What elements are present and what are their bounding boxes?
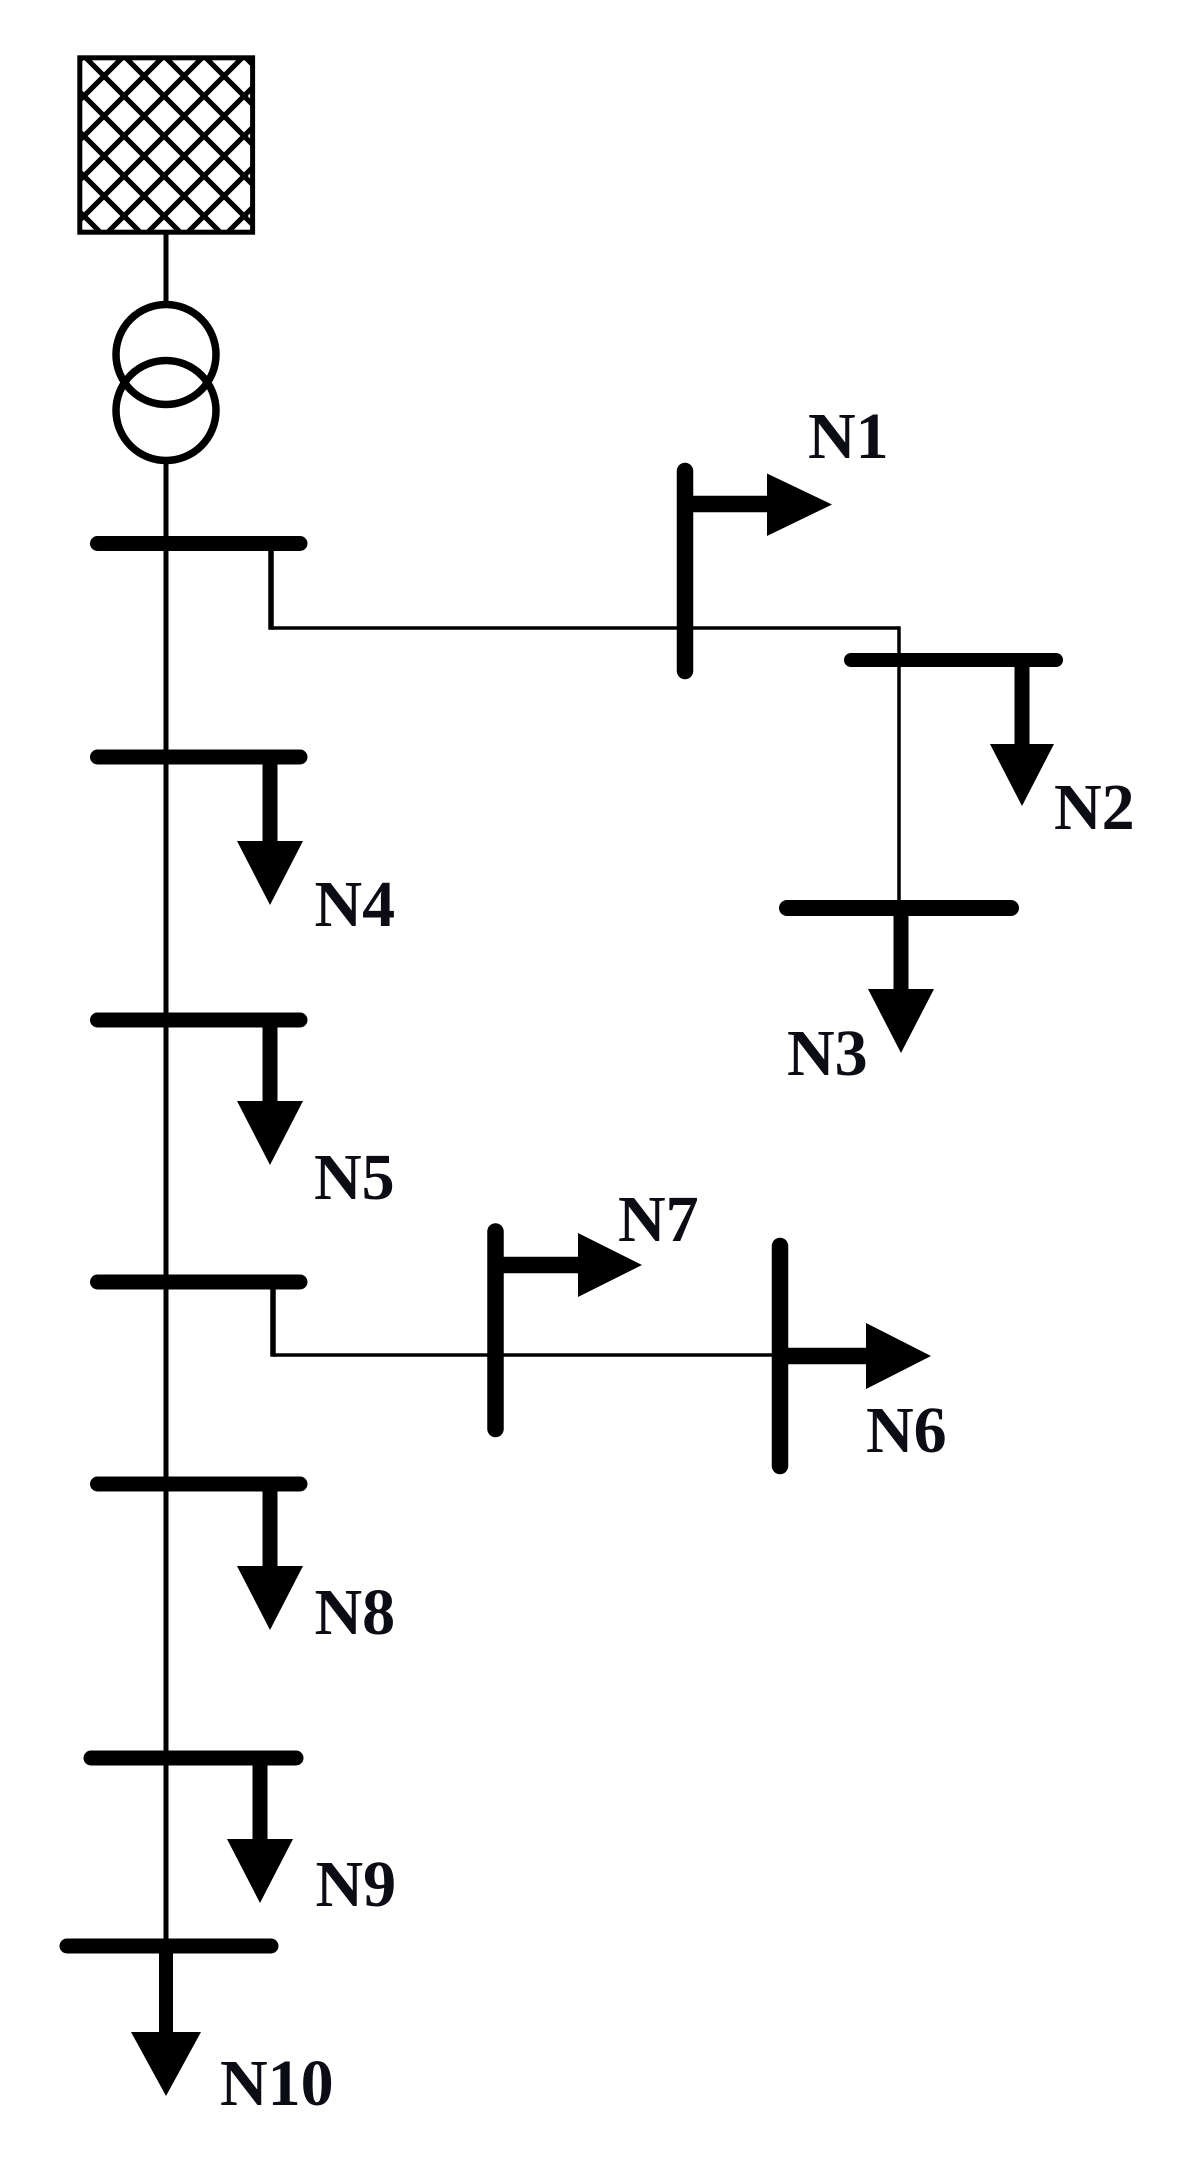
svg-text:N5: N5 <box>314 1141 395 1214</box>
busbar B4 <box>98 1275 301 1290</box>
svg-text:N10: N10 <box>220 2047 334 2120</box>
svg-text:N8: N8 <box>315 1576 396 1649</box>
load arrow N8 <box>263 1489 278 1570</box>
wire down to N2/N3 <box>897 626 901 908</box>
load arrow N2 <box>1015 665 1030 748</box>
busbar node N6 <box>772 1246 789 1466</box>
wire lateral to N1 <box>271 626 899 630</box>
busbar B7 <box>67 1939 271 1954</box>
load arrow N1 <box>685 496 770 513</box>
busbar B5 <box>98 1477 301 1492</box>
svg-text:N3: N3 <box>787 1017 868 1090</box>
wire lateral to N7/N6 <box>273 1353 780 1357</box>
svg-text:N7: N7 <box>618 1183 699 1256</box>
wire grid to transformer <box>164 232 169 306</box>
busbar B3 <box>98 1013 301 1028</box>
svg-text:N1: N1 <box>808 400 889 473</box>
load arrow N6 <box>780 1348 869 1365</box>
load arrow N7 <box>496 1257 582 1274</box>
wire drop from busbar B4 <box>270 1288 276 1357</box>
busbar node N1 <box>677 471 694 671</box>
busbar node N3 <box>787 900 1011 916</box>
svg-text:N2: N2 <box>1054 771 1135 844</box>
load arrow N3 <box>894 914 909 993</box>
busbar B1 (station bus) <box>98 536 301 551</box>
wire drop from busbar B1 <box>268 549 274 630</box>
svg-text:N4: N4 <box>315 868 396 941</box>
busbar node N7 <box>487 1232 504 1430</box>
load arrow N9 <box>253 1763 268 1843</box>
busbar B2 <box>98 750 301 765</box>
wire main feeder vertical <box>164 461 169 1947</box>
transformer T1 (two-winding) <box>116 305 216 461</box>
busbar B6 <box>91 1751 296 1766</box>
load arrow N10 <box>159 1951 173 2036</box>
busbar node N2 <box>851 653 1056 667</box>
load arrow N5 <box>263 1025 278 1105</box>
load arrow N4 <box>263 762 278 845</box>
svg-text:N6: N6 <box>866 1394 947 1467</box>
svg-text:N9: N9 <box>316 1848 397 1921</box>
